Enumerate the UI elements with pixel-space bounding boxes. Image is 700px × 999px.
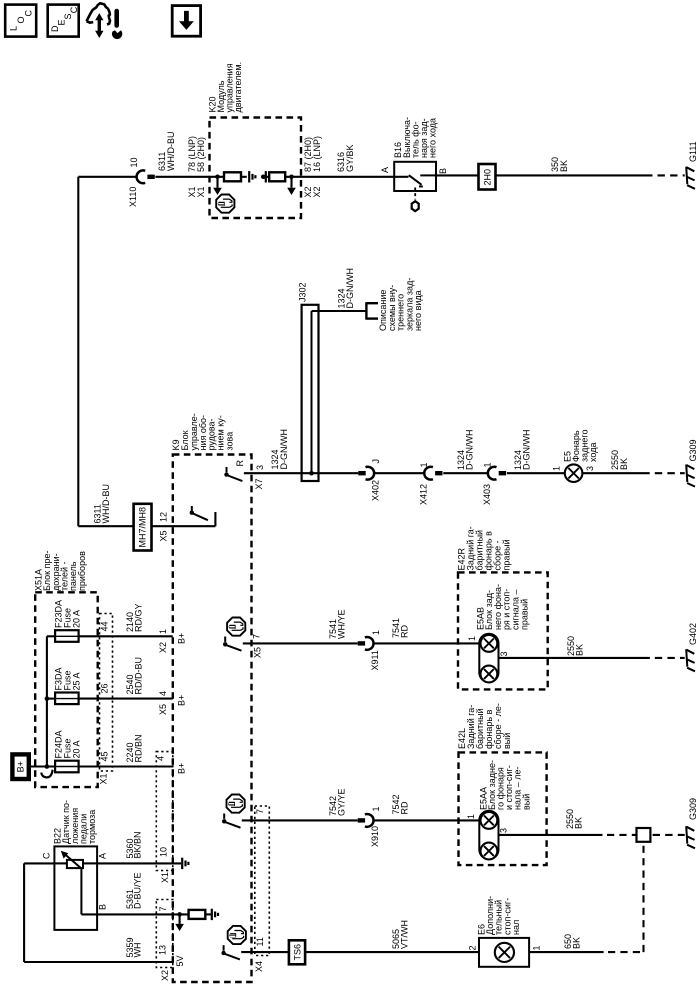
junction node right in K20 [289, 175, 294, 180]
wire through J302 [302, 472, 319, 474]
resistor in K20 (left) [224, 172, 241, 181]
wire 7541 WH/YE [243, 642, 358, 644]
svg-text:X911: X911 [370, 650, 380, 670]
svg-text:D-GN/WH: D-GN/WH [345, 268, 355, 309]
riser and switch inside K9 at X5-12 [190, 506, 216, 526]
svg-text:X110: X110 [128, 187, 138, 207]
pull-down arrow in K9 [179, 914, 181, 924]
wire 650 BK [529, 951, 604, 953]
svg-text:вый: вый [521, 794, 531, 810]
svg-text:G402: G402 [688, 623, 698, 645]
svg-text:7: 7 [158, 906, 168, 911]
junction node in K20 [215, 175, 220, 180]
svg-text:WH/D-BU: WH/D-BU [101, 484, 111, 524]
svg-text:вый: вый [502, 733, 512, 749]
svg-text:X5: X5 [159, 530, 169, 541]
svg-text:3: 3 [585, 466, 595, 471]
internal ground at X1-10 [182, 858, 188, 869]
fuse F23DA 20 A [55, 630, 79, 642]
ground G309 (bottom) [686, 826, 695, 848]
svg-text:X7: X7 [254, 478, 264, 489]
dashed wire junction to G309 [653, 834, 685, 836]
svg-text:RD: RD [400, 625, 410, 638]
svg-text:двигателем.: двигателем. [233, 62, 243, 113]
inline box 2H0 [479, 164, 496, 190]
svg-text:4: 4 [158, 691, 168, 696]
svg-text:1: 1 [158, 629, 168, 634]
lamp E6 Дополнительный стоп-сигнал [479, 938, 529, 967]
svg-text:A: A [98, 853, 108, 859]
driver and switch for row2 [222, 795, 245, 828]
svg-text:B+: B+ [16, 761, 26, 772]
wire 1324 D-GN/WH to E5 [507, 472, 565, 474]
svg-text:1: 1 [552, 466, 562, 471]
svg-text:X412: X412 [419, 484, 429, 505]
svg-text:10: 10 [129, 157, 139, 167]
wire 6311 WH/D-BU to K20 [155, 176, 210, 178]
svg-text:TS6: TS6 [293, 944, 303, 961]
wire 5361 D-BU/YE [97, 913, 189, 915]
terminal B+ box [12, 754, 28, 779]
svg-text:правый: правый [502, 539, 512, 570]
svg-text:J302: J302 [298, 282, 308, 302]
wire resistor to internal ground [241, 176, 247, 178]
svg-text:C: C [23, 10, 33, 17]
svg-text:RD: RD [400, 801, 410, 814]
svg-text:20 A: 20 A [72, 740, 82, 758]
svg-text:X4: X4 [254, 961, 264, 972]
connector X412 [424, 467, 442, 480]
internal ground after resistor [212, 909, 218, 920]
svg-text:1: 1 [371, 806, 381, 811]
fuse F3DA 25 A [55, 693, 79, 705]
svg-text:X5: X5 [158, 704, 168, 715]
svg-text:RD/BN: RD/BN [134, 734, 144, 762]
svg-text:BK: BK [575, 644, 585, 656]
svg-text:RD/D-BU: RD/D-BU [134, 657, 144, 695]
svg-text:45: 45 [100, 751, 110, 761]
fuse F24DA 20 A [55, 761, 79, 773]
wire 350 BK [496, 174, 653, 176]
wire MH7/MH8 to K9 [152, 525, 216, 527]
svg-text:B: B [438, 168, 448, 174]
svg-text:1: 1 [371, 630, 381, 635]
svg-text:X403: X403 [482, 484, 492, 505]
svg-text:BK: BK [574, 817, 584, 829]
dashed wire to junction [607, 834, 637, 836]
inline box TS6 [289, 940, 305, 964]
svg-text:13: 13 [158, 945, 168, 955]
ground G111 [686, 167, 695, 189]
svg-text:MH7/MH8: MH7/MH8 [138, 507, 148, 548]
connector X2 dotted box at K9 [156, 900, 173, 968]
driver arrow down in K20 [216, 177, 218, 188]
wire bus to fuse F23DA [47, 635, 55, 637]
connector X402 (J) [358, 467, 374, 480]
svg-text:D-BU/YE: D-BU/YE [132, 872, 142, 909]
svg-text:A: A [380, 167, 390, 173]
connector X1 dotted box at K9 [156, 752, 173, 871]
svg-text:X2: X2 [312, 186, 322, 197]
svg-text:B+: B+ [177, 633, 187, 644]
dashed wire to G402 [655, 657, 685, 659]
wire bus to fuse F3DA [47, 698, 55, 700]
connector X910 [358, 814, 374, 827]
ground G402 [686, 649, 695, 671]
svg-text:1: 1 [467, 636, 477, 641]
junction node on 5361 in K9 [177, 912, 182, 917]
junction node in J302 [309, 471, 314, 476]
wire 7541 RD to E5AB [373, 642, 479, 644]
driver symbol (hand octagon) in K20 [216, 195, 234, 213]
wire B16 to 2H0 [436, 174, 479, 176]
wire 7542 RD to E5AA [373, 819, 479, 821]
svg-text:приборов: приборов [77, 551, 87, 591]
svg-text:WH/D-BU: WH/D-BU [166, 132, 176, 172]
svg-text:25 A: 25 A [72, 672, 82, 690]
svg-text:тормоза: тормоза [87, 810, 97, 844]
svg-text:2H0: 2H0 [483, 169, 493, 186]
sensor B22 Датчик положения педали тормоза [54, 846, 97, 930]
junction node bus row2 [45, 696, 50, 701]
svg-text:X5: X5 [253, 647, 263, 658]
wire vertical 6311 down left side [77, 177, 79, 526]
dashed wire to G111 [658, 174, 685, 176]
wire 6316 GY/BK [301, 176, 394, 178]
svg-text:O: O [16, 16, 26, 23]
wire 2540 RD/D-BU to K9 [79, 698, 173, 700]
svg-text:58 (2H0): 58 (2H0) [196, 137, 206, 172]
svg-text:5V: 5V [175, 955, 185, 966]
svg-text:X910: X910 [370, 826, 380, 847]
lamp assembly E42L dashed box [459, 752, 547, 865]
svg-text:10: 10 [159, 847, 169, 857]
svg-text:BK/BN: BK/BN [132, 831, 142, 858]
svg-text:GY/YE: GY/YE [337, 788, 347, 816]
connector X1 dotted box at fuse block [100, 614, 113, 772]
svg-text:правый: правый [519, 599, 529, 630]
wire 5360 BK/BN [97, 862, 181, 864]
svg-text:C: C [41, 852, 51, 859]
wire 1324 D-GN/WH to X412 [374, 472, 425, 474]
wire B+ to bus [31, 765, 55, 767]
resistor in K9 (5361) [189, 910, 211, 919]
wire to TS6 [241, 951, 289, 953]
wire 2550 BK from E5AB [546, 657, 650, 659]
svg-text:D-GN/WH: D-GN/WH [522, 430, 532, 471]
driver and switch for row3 (X4-11) [221, 926, 245, 960]
icon down-arrow box [172, 6, 200, 37]
junction node at B+ bus [45, 764, 50, 769]
wire 2240 RD/BN to K9 [79, 765, 173, 767]
svg-text:3: 3 [499, 651, 509, 656]
node and bar before right resistor in K20 [261, 171, 266, 182]
svg-text:GY/BK: GY/BK [345, 144, 355, 172]
svg-text:S: S [63, 13, 73, 19]
svg-text:3: 3 [499, 828, 509, 833]
svg-text:44: 44 [100, 621, 110, 631]
svg-text:B+: B+ [177, 695, 187, 706]
svg-text:R: R [235, 460, 245, 467]
lamp E5 Фонарь заднего хода [565, 464, 583, 482]
inline box MH7/MH8 [134, 504, 152, 551]
off-page bracket to mirror schematic [366, 302, 378, 319]
svg-text:X2: X2 [160, 970, 170, 981]
wire 2140 RD/GY to K9 [79, 635, 173, 637]
dashed wire to G309 [655, 472, 685, 474]
svg-text:BK: BK [572, 937, 582, 949]
svg-text:G309: G309 [688, 798, 698, 820]
svg-text:11: 11 [255, 937, 265, 946]
icon LOC box [5, 5, 36, 37]
svg-text:BK: BK [559, 160, 569, 172]
svg-text:WH: WH [132, 943, 142, 958]
icon vehicle with up-down arrow and wrench [87, 3, 123, 39]
ground G309 (top) [686, 465, 695, 487]
label X2 X2 [303, 186, 322, 197]
svg-text:X1: X1 [196, 186, 206, 197]
svg-text:него вида: него вида [413, 290, 423, 331]
connector X403 [488, 467, 506, 480]
wire inside K20 to resistor [210, 176, 224, 178]
module K20 dashed box [210, 118, 302, 219]
svg-text:VT/WH: VT/WH [400, 920, 410, 949]
svg-text:16 (LNP): 16 (LNP) [312, 136, 322, 172]
svg-text:нал: нал [511, 920, 521, 935]
lamp unit E5AB (stadium with two lamps) [479, 634, 546, 683]
dashed riser to splice box [642, 842, 644, 952]
svg-text:20 A: 20 A [72, 610, 82, 628]
wire 1324 to X402 [319, 472, 359, 474]
svg-text:2: 2 [468, 945, 478, 950]
svg-text:1: 1 [532, 945, 542, 950]
switch inside K9 at X7 (R) [224, 467, 242, 481]
wire 1324 D-GN/WH from X7 to J302 [244, 472, 302, 474]
wire 5065 VT/WH to E6 [305, 951, 479, 953]
svg-text:7: 7 [252, 634, 262, 639]
svg-text:1: 1 [466, 814, 476, 819]
module K9 dashed box [173, 455, 252, 983]
svg-text:12: 12 [159, 512, 169, 522]
svg-text:J: J [371, 459, 381, 464]
resistor in K20 (right) [266, 172, 285, 181]
wire 6311 WH/D-BU bottom to MH7/MH8 [78, 525, 133, 527]
svg-text:X402: X402 [371, 480, 381, 501]
lamp assembly E42R dashed box [458, 572, 548, 689]
B+ pigtail hook [41, 770, 52, 778]
svg-text:BK: BK [619, 458, 629, 470]
label X1 X1 [187, 186, 206, 197]
splice pack J302 [302, 305, 319, 481]
internal ground in K20 [249, 171, 255, 182]
svg-text:X2: X2 [158, 642, 168, 653]
branch wire 1324 D-GN/WH to mirror schematic [312, 310, 367, 312]
wire to K20 right edge [285, 176, 301, 178]
driver arrow down right in K20 [290, 177, 292, 188]
svg-text:3: 3 [255, 465, 265, 470]
wire 5359 WH from B22 pin C [24, 863, 173, 962]
svg-text:X1: X1 [99, 773, 109, 784]
switch B16 Выключатель фонаря заднего хода [394, 162, 436, 211]
driver and switch for reversing-lamp feed (row1) [223, 618, 245, 651]
svg-text:B: B [98, 904, 108, 910]
connector dotted box at K9 right edge [255, 806, 269, 956]
svg-text:26: 26 [100, 683, 110, 693]
wire 7542 GY/YE [242, 819, 358, 821]
wire to X403 [443, 472, 488, 474]
svg-text:RD/GY: RD/GY [134, 603, 144, 632]
svg-text:зова: зова [225, 432, 235, 451]
wire 6311 WH/D-BU from corner to X110 [78, 176, 137, 178]
dashed wire 650 BK to riser [608, 951, 644, 953]
svg-text:B+: B+ [177, 763, 187, 774]
svg-text:C: C [69, 6, 79, 13]
svg-text:хода: хода [588, 443, 598, 462]
svg-text:G111: G111 [688, 141, 698, 162]
svg-text:D-GN/WH: D-GN/WH [279, 429, 289, 470]
splice box (ground junction) [637, 828, 651, 842]
connector X110 [137, 170, 155, 183]
svg-text:него хода: него хода [428, 118, 438, 158]
bus vertical in X51A [46, 636, 48, 766]
svg-text:7: 7 [255, 809, 265, 814]
svg-text:L: L [9, 26, 19, 31]
connector X911 [358, 637, 374, 650]
lamp unit E5AA (stadium with two lamps) [479, 811, 602, 860]
svg-text:D-GN/WH: D-GN/WH [465, 430, 475, 471]
svg-text:X1: X1 [160, 872, 170, 883]
svg-text:WH/YE: WH/YE [337, 609, 347, 639]
wire 2550 BK from E5 [582, 472, 649, 474]
svg-text:G309: G309 [688, 439, 698, 461]
fuse block X51A dashed box [35, 592, 97, 787]
icon DESC box [48, 5, 79, 37]
